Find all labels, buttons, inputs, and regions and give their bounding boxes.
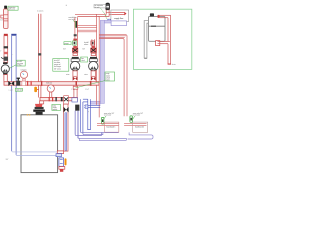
wire: main supply pipe 2 [40,98,77,101]
wire: pump2 riser to branch [91,39,93,48]
svg-text:circ pump: circ pump [17,63,23,65]
red fill pipe loop (inset) [158,40,170,42]
dark fitting under main 2 [75,105,79,111]
wire: blue purge leg [87,99,89,129]
svg-text:boiler: boiler [53,105,57,107]
union on main 1 [22,81,26,86]
svg-text:3/4": 3/4" [6,159,9,161]
svg-text:zone valve 3/4": zone valve 3/4" [133,113,144,115]
svg-text:3/4": 3/4" [82,49,85,51]
svg-text:zone valve 3/4": zone valve 3/4" [104,113,115,115]
svg-text:3/4": 3/4" [63,49,66,51]
dark tick on riser 1 [74,34,77,36]
svg-text:3/4" zones: 3/4" zones [54,68,61,70]
green fitting on riser 1 [73,41,77,45]
svg-text:3/4": 3/4" [0,20,3,22]
svg-text:valves: valves [84,44,89,46]
orange sensor [65,158,67,165]
wire: purple return B loop [128,132,153,139]
wire: main supply pipe 1 [4,82,99,86]
wire: red flange drop to boiler [40,101,44,104]
valve: bowtie on main 1 [8,81,14,86]
grey drain pipe (inset) [144,21,148,59]
fitting ticks main 1 [27,81,28,86]
riser fittings [4,46,8,48]
tank bottom fitting (inset) [156,41,160,46]
green label box pumps [53,59,69,72]
wire: mid red riser [38,14,40,82]
svg-text:1 1/4": 1 1/4" [71,89,75,91]
wire: red riser left [4,36,8,63]
green dashed leaders [101,8,107,16]
valve: bowtie on boiler drop [64,107,69,113]
green label pump1 [16,60,25,66]
pump column 2 [89,46,98,81]
legend box (return, lavender) [111,21,126,26]
red bottom fittings [59,167,65,170]
svg-text:supply flow: supply flow [114,18,124,20]
wire: boiler drop pipe [63,104,68,151]
boiler [21,115,58,173]
junction blue pipes [79,99,81,131]
wire: pump outlet down [4,75,7,82]
wire: mid riser lower segment [38,85,40,97]
svg-text:union: union [84,74,88,76]
svg-text:drain: drain [172,64,176,66]
svg-text:iso flanges: iso flanges [54,66,61,68]
dark fitting on riser 2 [91,41,95,45]
wire: purple return A (boiler return pipe walls) [75,111,101,136]
wire: blue pipe B (boiler return riser) [74,111,76,135]
legend box (flow) [111,10,129,22]
svg-text:1 1/4": 1 1/4" [9,90,14,92]
blue riser caps [11,34,16,36]
lavender elbow to left [91,101,101,104]
green label box flange [52,104,61,110]
wire: branch pipes to radiator feed riser [77,25,96,27]
wire: separator drop pipe [75,10,106,15]
wire: separator to legend [106,12,112,14]
svg-text:manifold air: manifold air [68,17,77,19]
green inset detail box [133,9,191,69]
svg-text:w/ ball: w/ ball [106,77,111,79]
svg-text:check: check [81,60,85,62]
wire: link main1-main2 [73,85,75,97]
svg-text:1" flngs: 1" flngs [17,65,22,67]
air separator label [94,5,106,8]
svg-text:to zones: to zones [37,10,44,13]
pump column 1 [70,46,79,81]
svg-text:purge: purge [106,73,110,75]
relief stub [1,15,4,18]
green label small (drain) [15,88,22,91]
wire: radiator A feed riser [96,14,97,105]
relief valve orange [34,87,37,92]
svg-text:supply: supply [53,107,57,109]
svg-text:pumps w/: pumps w/ [54,64,61,66]
expansion tank T1 (inset) [149,16,166,41]
svg-text:baseboard 1: baseboard 1 [107,127,116,129]
stray dot [65,4,68,7]
wire: branch pipes to radiator B drop [99,35,127,117]
lavender return bar [100,20,104,103]
expansion assembly top-left [4,6,7,10]
pump P1 (left circulator) [1,65,9,73]
red riser left cap [4,34,8,36]
svg-text:flow: flow [81,58,83,60]
svg-text:1 1/4": 1 1/4" [85,89,89,91]
check valve main 2 right [72,98,78,102]
tank air valve cap (inset) [150,13,154,16]
green label box junction [105,72,115,81]
wire: blue riser elbows across boiler [12,150,59,153]
valve: cross X on main 2 [64,96,69,104]
wire: vent riser pipe [74,17,76,48]
svg-text:valves: valves [106,80,110,82]
air separator U1 [106,4,110,10]
valve: T-handle on main 1 [16,81,20,86]
small blue fitting near lavender bar top [108,19,110,22]
boiler vent flange [35,107,44,109]
boiler side fittings [57,151,63,154]
expansion label box [8,6,18,10]
svg-text:baseboard 2: baseboard 2 [135,127,144,129]
wire: blue riser walls [11,36,13,151]
flange above pump [3,62,8,64]
green label flow-check [81,57,88,62]
svg-text:union: union [66,74,70,76]
wire: under-radiator return lines [80,132,118,133]
green label valve1 [64,42,71,45]
